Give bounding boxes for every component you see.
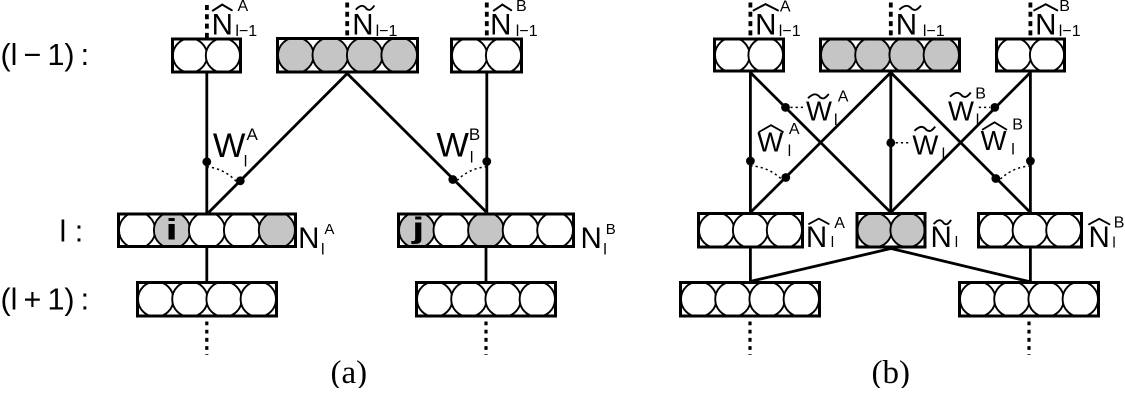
svg-text:W: W <box>213 127 246 165</box>
svg-text:l−1: l−1 <box>923 23 945 40</box>
svg-text:l: l <box>788 143 792 160</box>
svg-text:B: B <box>469 125 480 144</box>
dotted connector W_l_A tilde (b) <box>790 106 805 108</box>
dotted angle arc W_l_A (a) <box>207 167 238 183</box>
svg-text:l: l <box>244 153 248 170</box>
svg-text:W: W <box>948 96 974 127</box>
dotted connector W_l tilde (b) <box>896 142 911 144</box>
wire diagonal N_l-1_tilde to N_l_B (b) <box>891 73 1031 213</box>
svg-text:l−1: l−1 <box>1059 23 1081 40</box>
svg-text:N: N <box>755 9 776 42</box>
dashed stub above layer box N_l-1_B (b) <box>1029 3 1033 38</box>
dot on diagonal wire at W_l_B (a) <box>448 175 457 184</box>
svg-text:l: l <box>603 241 607 258</box>
label N_l-1_tilde (a) <box>352 6 397 42</box>
dotted angle arc W_l_A hat (b) <box>750 166 782 180</box>
wire vertical N_l-1_A to N_l_A (b) <box>749 73 752 213</box>
svg-text:N: N <box>352 9 373 42</box>
label N_l-1_B hat (b) <box>1034 0 1081 42</box>
wire vertical N_l_A to layer l+1 left (b) <box>749 249 752 282</box>
svg-text:W: W <box>981 125 1007 156</box>
layer box N_l-1_A (b): 2 white units <box>715 38 784 73</box>
svg-text:N: N <box>1035 9 1056 42</box>
dashed stub below layer l+1 right (b) <box>1027 322 1030 356</box>
dot on vertical wire at W_l_B hat (b) <box>1026 157 1035 166</box>
svg-text:B: B <box>975 85 986 102</box>
svg-text:W: W <box>806 96 832 127</box>
weight label W_l_A hat (b) <box>757 121 800 160</box>
dot on diagonal wire at W_l_B tilde (b) <box>990 103 999 112</box>
layer box N_l-1_B (b): 2 white units <box>997 38 1065 72</box>
label N_l-1_A hat (b) <box>754 0 801 42</box>
svg-text:l: l <box>470 149 474 166</box>
wire diagonal N_l-1_tilde to N_l_B (a) <box>347 74 487 213</box>
svg-text:N: N <box>298 222 319 255</box>
dotted connector W_l_B tilde (b) <box>979 106 990 108</box>
svg-text:A: A <box>324 221 334 238</box>
svg-text:l: l <box>1112 235 1115 252</box>
weight label W_l_B hat (b) <box>981 117 1023 159</box>
svg-text:A: A <box>789 121 800 138</box>
svg-text:B: B <box>1012 117 1023 134</box>
svg-text:l−1: l−1 <box>779 23 801 40</box>
svg-text:j: j <box>411 212 425 246</box>
dot on diagonal wire at W_l_B hat (b) <box>991 174 1000 183</box>
dotted angle arc W_l_B (a) <box>456 167 487 182</box>
svg-text:N: N <box>212 9 233 42</box>
svg-text:l: l <box>955 234 958 251</box>
weight label W_l_A (a) <box>213 125 259 170</box>
wire diagonal N_l-1_A to N_l_tilde (b) <box>750 73 890 213</box>
svg-text:(b): (b) <box>872 355 910 388</box>
svg-text:B: B <box>606 221 616 238</box>
weight label W_l_A tilde (b) <box>806 88 849 129</box>
label N_l_A (a) <box>298 221 334 258</box>
svg-text:l :: l : <box>60 215 84 249</box>
svg-text:l: l <box>1011 142 1015 159</box>
svg-text:N: N <box>806 221 827 254</box>
svg-text:N: N <box>1089 221 1110 254</box>
svg-text:B: B <box>1059 0 1070 15</box>
layer box N_l-1_A (a): 2 white units <box>173 38 241 72</box>
dot on vertical wire at W_l_B (a) <box>482 157 491 166</box>
svg-text:l: l <box>321 241 325 258</box>
wire diagonal N_l_tilde to layer l+1 left (b) <box>750 249 891 282</box>
weight label W_l_B tilde (b) <box>948 85 986 129</box>
dotted angle arc W_l_B hat (b) <box>999 166 1030 181</box>
dot on vertical wire at W_l_A hat (b) <box>746 157 755 166</box>
wire vertical N_l-1_B to N_l_B (a) <box>485 74 488 214</box>
wire vertical N_l-1_tilde to N_l_tilde (b) <box>889 73 892 213</box>
svg-text:l−1: l−1 <box>376 23 398 40</box>
layer box N_l_B hat (b): 3 white units <box>979 213 1082 248</box>
svg-text:i: i <box>165 213 178 247</box>
svg-text:(l − 1) :: (l − 1) : <box>1 38 90 72</box>
svg-text:N: N <box>896 9 917 42</box>
dashed stub above layer box N_l-1_A (a) <box>205 5 209 38</box>
svg-text:N: N <box>931 221 952 254</box>
svg-text:l: l <box>831 234 834 251</box>
layer box N_l-1_tilde (b): 4 gray units <box>821 37 960 72</box>
dot on diagonal wire at W_l_A tilde (b) <box>781 103 790 112</box>
layer box N_l-1_B (a): 2 white units <box>452 38 522 73</box>
layer box l+1 left (a): 4 white units <box>138 282 277 317</box>
svg-text:(l + 1) :: (l + 1) : <box>1 283 90 317</box>
dashed stub below layer l+1 left (a) <box>205 322 208 356</box>
dashed stub above layer box N_l-1_B (a) <box>485 3 489 38</box>
weight label W_l_B (a) <box>436 125 480 166</box>
weight label W_l tilde (b) <box>912 127 945 164</box>
svg-text:l−1: l−1 <box>235 23 257 40</box>
dashed stub above layer box N_l-1_tilde (a) <box>345 3 349 38</box>
layer box l+1 right (a): 4 white units <box>417 282 556 317</box>
dashed stub above layer box N_l-1_A (b) <box>749 3 753 38</box>
svg-text:A: A <box>238 0 249 15</box>
svg-text:l−1: l−1 <box>516 23 538 40</box>
svg-text:l: l <box>834 112 838 129</box>
svg-text:(a): (a) <box>331 355 368 388</box>
dashed stub below layer l+1 right (a) <box>484 322 487 356</box>
dot on vertical wire at W_l_A (a) <box>202 157 211 166</box>
svg-text:B: B <box>1114 215 1125 232</box>
label N_l-1_A hat (a) <box>212 0 258 42</box>
svg-text:A: A <box>838 88 849 105</box>
layer box N_l-1_tilde (a): 4 gray units <box>278 37 418 73</box>
wire diagonal N_l-1_B to N_l_tilde (b) <box>891 73 1031 213</box>
svg-text:W: W <box>912 130 938 161</box>
svg-text:A: A <box>834 215 845 232</box>
dot on diagonal wire at W_l_A (a) <box>236 176 245 185</box>
layer box N_l_A (a): 5 units, unit i and 5 gray <box>119 212 296 248</box>
dot on diagonal wire at W_l_A hat (b) <box>781 173 790 182</box>
svg-text:B: B <box>516 0 527 15</box>
wire diagonal N_l-1_tilde to N_l_A (b) <box>750 73 890 213</box>
wire diagonal N_l-1_tilde to N_l_A (a) <box>209 74 348 213</box>
wire vertical N_l_A to layer l+1 (a) <box>205 248 208 282</box>
label N_l_B hat (b) <box>1089 215 1125 254</box>
label N_l_A hat (b) <box>806 215 845 254</box>
svg-text:l: l <box>976 112 980 129</box>
label N_l_B (a) <box>580 221 615 258</box>
layer box l+1 right (b): 4 white units <box>960 282 1099 317</box>
svg-text:A: A <box>247 125 259 144</box>
dashed stub above layer box N_l-1_tilde (b) <box>889 3 893 38</box>
dashed stub below layer l+1 left (b) <box>748 322 751 356</box>
label N_l_tilde (b) <box>931 220 959 254</box>
svg-text:N: N <box>490 9 511 42</box>
layer box N_l_tilde (b): 2 gray units <box>857 213 925 247</box>
svg-text:W: W <box>436 127 469 165</box>
label N_l-1_B hat (a) <box>490 0 538 42</box>
layer box N_l_A hat (b): 3 white units <box>699 213 803 248</box>
layer box N_l_B (a): 5 units, unit j and 3 gray <box>399 212 574 248</box>
svg-text:N: N <box>580 222 601 255</box>
wire diagonal N_l_tilde to layer l+1 right (b) <box>891 249 1029 282</box>
svg-text:l: l <box>942 146 946 163</box>
wire vertical N_l_B to layer l+1 (a) <box>485 248 488 282</box>
wire vertical N_l-1_B to N_l_B (b) <box>1029 73 1032 213</box>
wire vertical N_l-1_A to N_l_A (a) <box>205 74 208 214</box>
svg-text:A: A <box>780 0 791 16</box>
wire vertical N_l_B to layer l+1 right (b) <box>1029 249 1032 282</box>
label N_l-1_tilde (b) <box>896 6 945 42</box>
layer box l+1 left (b): 4 white units <box>681 282 820 317</box>
dot on vertical wire at W_l tilde (b) <box>886 138 895 147</box>
